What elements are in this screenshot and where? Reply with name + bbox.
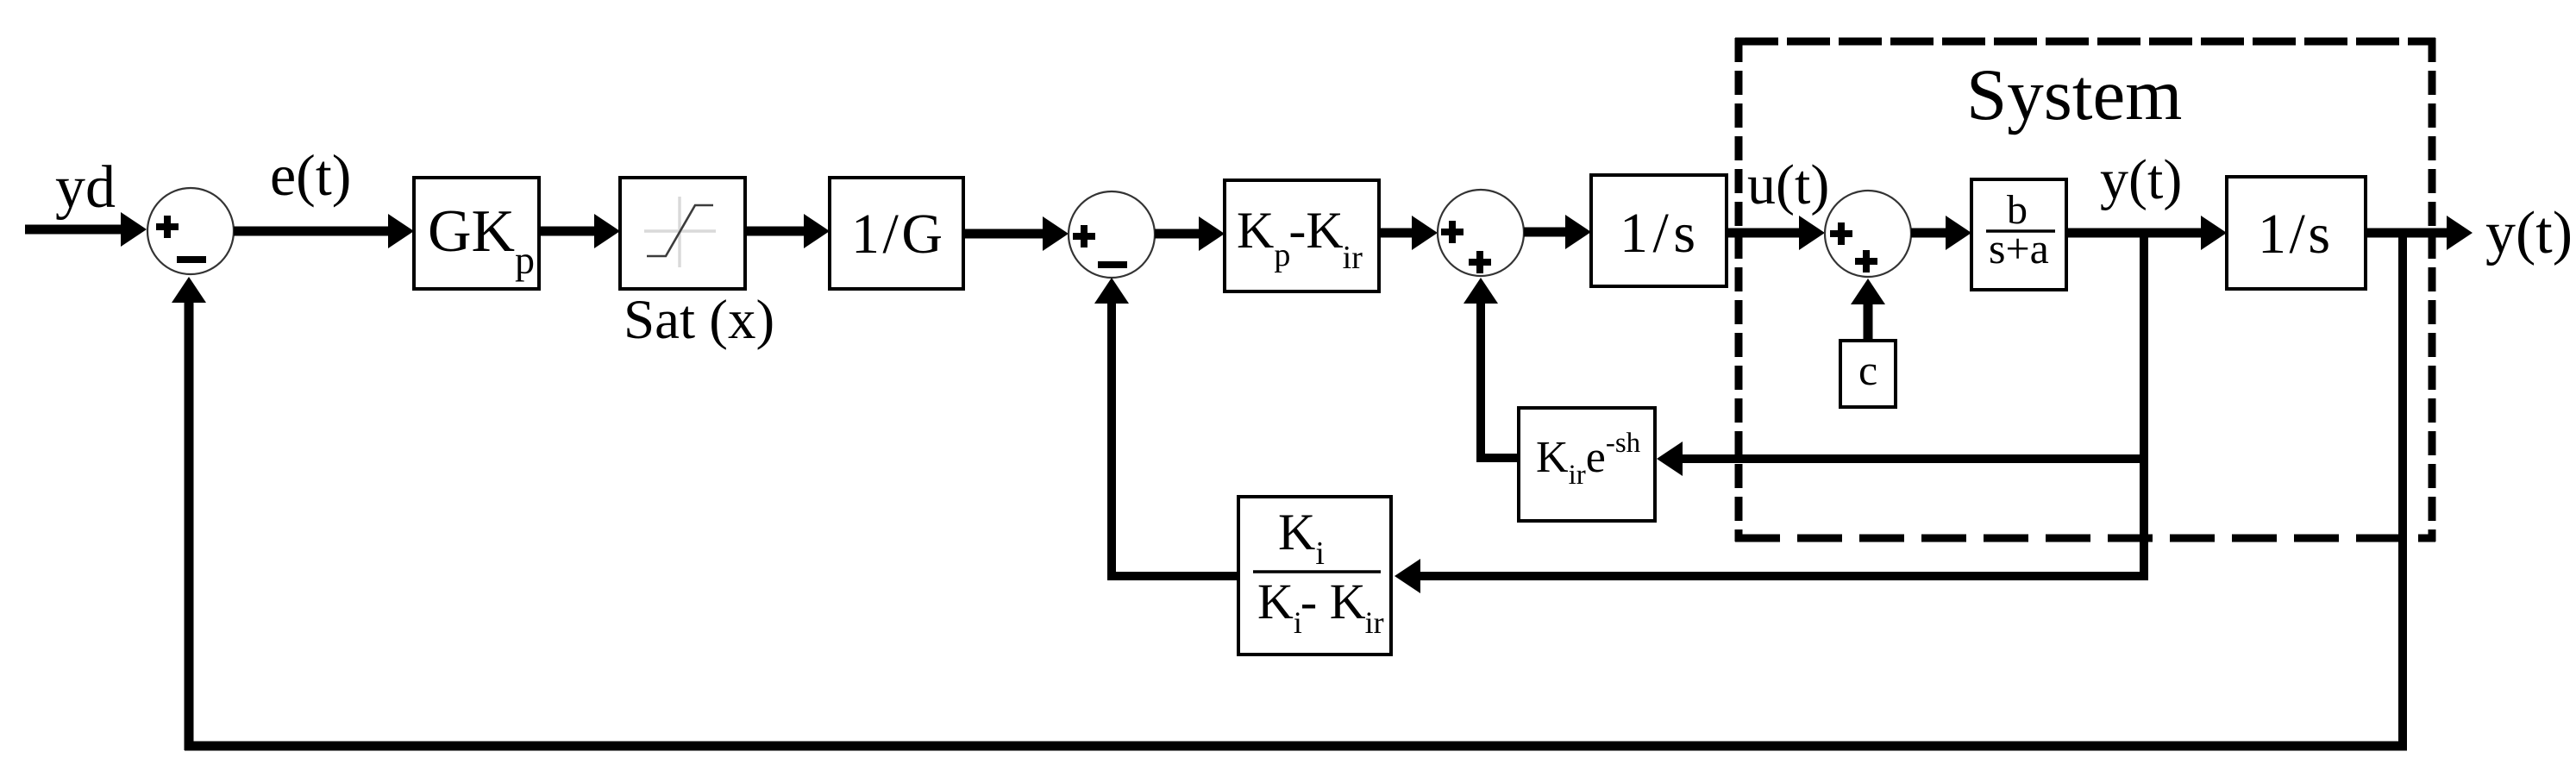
block Sat saturation	[620, 178, 745, 289]
svg-text:1/s: 1/s	[1620, 202, 1695, 265]
svg-text:p: p	[515, 238, 535, 282]
summing junction S1	[147, 188, 234, 274]
svg-text:System: System	[1966, 54, 2182, 135]
wire Kp-Kir to S3	[1379, 216, 1438, 250]
svg-text:y(t): y(t)	[2100, 148, 2182, 211]
wire c to S4	[1851, 279, 1885, 341]
svg-text:yd: yd	[55, 154, 116, 221]
block Ki fraction	[1238, 497, 1391, 655]
block 1/s second integrator	[2227, 177, 2366, 289]
summing junction S4	[1825, 191, 1911, 277]
wire Ki feedback horizontal	[1395, 559, 2144, 593]
wire outer feedback loop	[172, 233, 2407, 750]
block b/(s+a)	[1971, 179, 2066, 290]
wire 1/s to S4 u(t)	[1727, 216, 1825, 250]
wire yd input	[25, 212, 147, 247]
block Kir e-sh	[1519, 408, 1655, 521]
dashed box System left edge	[1735, 38, 1743, 542]
svg-text:s+a: s+a	[1989, 224, 2049, 273]
block Kp-Kir	[1225, 180, 1379, 291]
wire output y(t)	[2366, 216, 2473, 250]
wire Sat to 1/G	[745, 214, 830, 248]
svg-text:GK: GK	[428, 198, 515, 265]
svg-text:1/G: 1/G	[851, 203, 943, 266]
wire S4 to b/(s+a)	[1911, 216, 1971, 250]
svg-text:e(t): e(t)	[270, 142, 351, 208]
dashed box System right edge	[2429, 38, 2436, 542]
wire Ki output to S2	[1094, 278, 1238, 580]
block GKp	[414, 178, 539, 289]
wire y(t) tap down to feedbacks	[2140, 233, 2148, 580]
summing junction S2	[1069, 191, 1155, 278]
svg-text:Sat (x): Sat (x)	[624, 289, 774, 351]
svg-text:c: c	[1858, 346, 1877, 394]
dashed box System top edge	[1735, 38, 2435, 46]
svg-text:y(t): y(t)	[2485, 200, 2573, 266]
wire Kir feedback horizontal	[1657, 442, 2144, 476]
wire e(t) S1 to GKp	[234, 214, 414, 248]
wire S3 to 1/s	[1524, 215, 1591, 249]
wire S2 to Kp-Kir	[1155, 216, 1225, 251]
block 1/s first integrator	[1591, 175, 1727, 286]
summing junction S3	[1438, 190, 1524, 276]
svg-text:u(t): u(t)	[1747, 153, 1829, 216]
svg-text:1/s: 1/s	[2258, 203, 2330, 266]
block 1/G	[830, 178, 963, 289]
wire 1/G to S2	[963, 216, 1069, 251]
block c constant	[1840, 341, 1896, 407]
wire Kir output to S3	[1463, 278, 1519, 462]
wire GKp to Sat	[539, 214, 620, 248]
dashed box System bottom edge	[1735, 535, 2435, 542]
wire b/(s+a) to 1/s with y(t) tap	[2066, 216, 2227, 250]
